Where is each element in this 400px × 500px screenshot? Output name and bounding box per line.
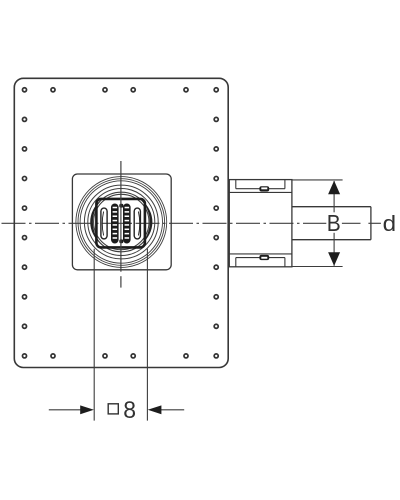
grate slot right outline bbox=[134, 208, 140, 239]
outlet pipe bbox=[292, 207, 371, 240]
vertical centerline bbox=[120, 161, 122, 288]
grate perforated bar left bbox=[111, 204, 119, 244]
B extension line top bbox=[292, 179, 343, 181]
grate slot left outline bbox=[101, 208, 107, 239]
grate center nub bottom bbox=[119, 239, 123, 243]
B extension line bottom bbox=[292, 266, 343, 268]
B label background bbox=[326, 212, 342, 233]
square-8 dimension line left bbox=[49, 409, 84, 411]
B arrow up bbox=[328, 181, 340, 195]
horizontal centerline bbox=[0, 222, 362, 224]
square symbol of dimension label bbox=[108, 404, 118, 414]
grate slot right inner arc bbox=[138, 212, 139, 236]
coupling bottom band upper edge bbox=[229, 253, 292, 255]
coupling sleeve body bbox=[229, 180, 292, 267]
square-8 arrow right bbox=[148, 405, 162, 414]
coupling top band left notch bbox=[235, 180, 237, 189]
square-8 extension line left bbox=[93, 249, 95, 421]
coupling top band inner edge bbox=[236, 188, 285, 190]
coupling clamp screw top bbox=[259, 186, 269, 191]
bowl shadow crescent right bbox=[141, 200, 152, 243]
square-8 dimension line right bbox=[158, 409, 185, 411]
svg-text:d: d bbox=[383, 211, 397, 236]
coupling bottom band inner edge bbox=[236, 257, 285, 259]
coupling top band lower edge bbox=[229, 191, 292, 193]
coupling bottom band left notch bbox=[235, 258, 237, 267]
flange screw holes bbox=[22, 88, 218, 358]
coupling bottom band right notch bbox=[284, 258, 286, 267]
drain bowl concentric circles bbox=[76, 177, 167, 268]
coupling top band right notch bbox=[284, 180, 286, 189]
grate frame bbox=[96, 199, 144, 248]
square-8 extension line right bbox=[146, 249, 148, 421]
grate slot left inner arc bbox=[102, 212, 103, 236]
d leader line bbox=[368, 222, 381, 224]
grate center nub top bbox=[119, 204, 123, 208]
svg-text:B: B bbox=[327, 210, 341, 236]
coupling clamp screw bottom bbox=[259, 255, 269, 260]
square-8 arrow left bbox=[80, 405, 94, 414]
drain housing square bbox=[72, 174, 171, 270]
svg-text:8: 8 bbox=[123, 397, 136, 424]
bowl shadow crescent left bbox=[90, 200, 101, 243]
grate perforated bar right bbox=[123, 204, 131, 244]
flange plate outline bbox=[14, 78, 228, 367]
B arrow down bbox=[328, 252, 340, 266]
B dimension line bbox=[333, 181, 335, 266]
